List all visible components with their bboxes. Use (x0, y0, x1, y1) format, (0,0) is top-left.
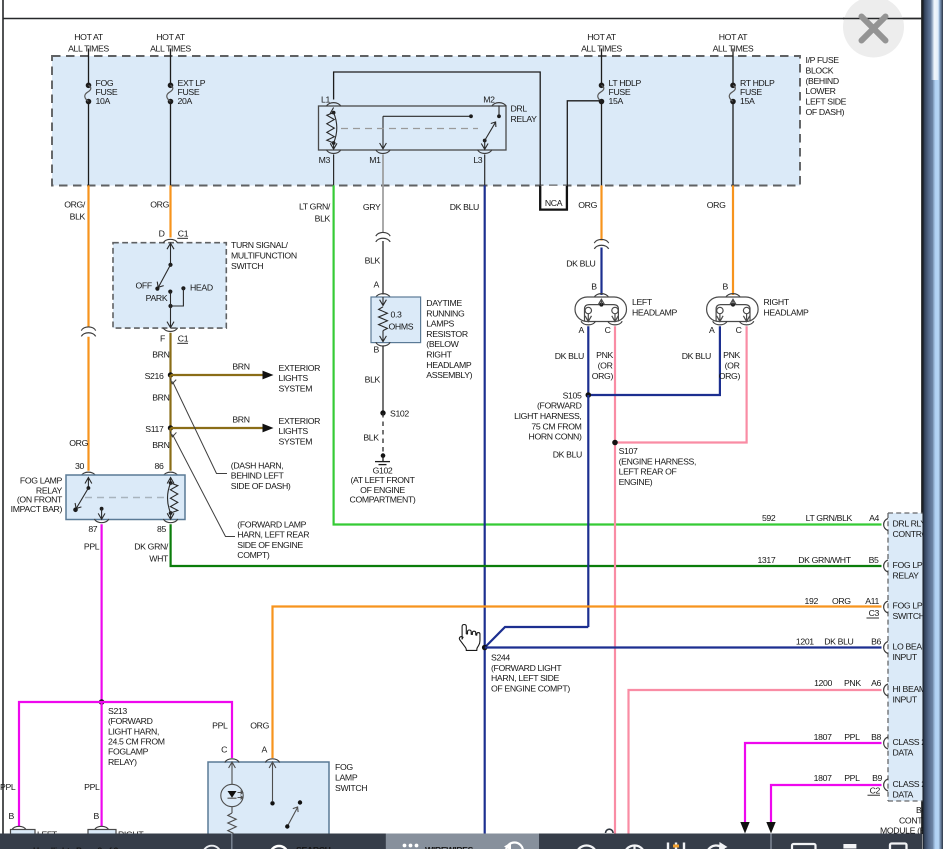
svg-text:DK GRN/: DK GRN/ (134, 542, 169, 552)
svg-text:NCA: NCA (545, 198, 563, 208)
close button (843, 0, 922, 58)
wire: EXT LP FUSE output (170, 102, 172, 186)
pin 87 connector arc (94, 519, 108, 523)
svg-text:BLOCK: BLOCK (806, 65, 834, 75)
pin A connector arc (left headlamp) (581, 321, 595, 325)
svg-text:DK BLU: DK BLU (824, 637, 853, 647)
svg-text:ORG: ORG (578, 200, 597, 210)
pin F connector arc (163, 328, 177, 332)
svg-text:A: A (709, 325, 715, 335)
svg-text:CLASS 2: CLASS 2 (893, 779, 927, 789)
node: HOT AT ALL TIMES (fog fuse) (68, 32, 109, 54)
svg-text:B: B (723, 282, 729, 292)
node: HOT AT ALL TIMES (rt hdlp fuse) (713, 32, 754, 54)
svg-text:ORG): ORG) (592, 371, 614, 381)
right headlamp label (764, 297, 810, 318)
pin A connector arc (376, 294, 390, 298)
note (DASH HARN, BEHIND LEFT SIDE OF DASH) (231, 460, 291, 491)
wire: DK GRN/WHT from fog relay 85 to BCM (FOG LP RELAY) (171, 524, 882, 566)
svg-text:86: 86 (155, 461, 164, 471)
wire: BRN branch to exterior lights system (lower) (171, 427, 263, 429)
fog relay switch contact (pin 30 to 87) (73, 478, 105, 520)
svg-text:PPL: PPL (0, 782, 16, 792)
svg-text:A: A (262, 745, 268, 755)
pin B connector arc (376, 342, 390, 346)
pin A connector arc (265, 759, 279, 763)
svg-text:1317: 1317 (757, 555, 775, 565)
svg-text:HARN, LEFT SIDE: HARN, LEFT SIDE (491, 673, 560, 683)
svg-text:DRL: DRL (511, 104, 528, 114)
inline connector on GRY/BLK wire (376, 232, 390, 241)
svg-text:HEADLAMP: HEADLAMP (764, 308, 810, 318)
wire: DK BLU into left headlamp B (600, 248, 602, 296)
svg-text:BRN: BRN (152, 440, 169, 450)
wire: PPL from BCM B9 (CLASS 2 DATA) down to arrow (771, 785, 882, 823)
wire: BLK from resistor B to S102 (382, 346, 384, 414)
svg-text:HEADLAMP: HEADLAMP (426, 360, 472, 370)
svg-text:24.5 CM FROM: 24.5 CM FROM (108, 737, 165, 747)
label DK GRN/WHT (134, 542, 169, 564)
svg-text:DAYTIME: DAYTIME (426, 298, 462, 308)
small glyph above toolbar (606, 829, 614, 833)
svg-text:BRN: BRN (232, 362, 249, 372)
svg-text:BRN: BRN (232, 415, 249, 425)
NCA box (540, 186, 567, 210)
wire: PPL from fog relay 87 to S213 (100, 524, 102, 702)
connector C1 label (top) (177, 229, 188, 239)
svg-text:(FORWARD: (FORWARD (108, 716, 153, 726)
wire: ORG from LT HDLP fuse to inline connector (600, 185, 602, 240)
wire: ORG to turn signal switch pin D (169, 185, 171, 237)
svg-text:HARN, LEFT REAR: HARN, LEFT REAR (237, 530, 309, 540)
splice S107 (612, 440, 618, 446)
BCM row: DRL RLY CONTROL (762, 513, 933, 539)
DRL relay box (319, 106, 507, 150)
wire: feed into FOG FUSE (88, 49, 90, 86)
svg-text:LIGHT HARNESS,: LIGHT HARNESS, (514, 411, 581, 421)
wire: M3 lead below relay (333, 155, 335, 186)
wire: PNK right headlamp C to S107 (615, 326, 747, 442)
svg-text:PARK: PARK (146, 293, 168, 303)
svg-text:D: D (159, 229, 165, 239)
wire: tap from LT HDLP fuse to NCA (567, 101, 601, 187)
DRL relay linkage dashed line (341, 128, 478, 130)
ground G102 label (350, 466, 416, 505)
svg-text:ORG: ORG (250, 721, 269, 731)
pin 30 connector arc (81, 472, 95, 476)
arrow: PPL class 2 data continues (left) (740, 822, 749, 834)
svg-text:SYSTEM: SYSTEM (279, 436, 313, 446)
svg-text:DK BLU: DK BLU (553, 449, 582, 459)
svg-text:HORN CONN): HORN CONN) (529, 432, 582, 442)
svg-text:DK BLU: DK BLU (555, 351, 584, 361)
svg-text:INPUT: INPUT (893, 652, 918, 662)
wire: BRN from pin F to S216 (169, 333, 171, 375)
S244 label (491, 653, 570, 694)
svg-text:DK BLU: DK BLU (682, 351, 711, 361)
svg-text:PPL: PPL (212, 721, 228, 731)
svg-text:PPL: PPL (844, 773, 860, 783)
svg-text:ORG): ORG) (719, 371, 741, 381)
left fog lamp box (clipped by toolbar) (11, 830, 58, 842)
svg-text:HEAD: HEAD (190, 282, 213, 292)
svg-text:Headlights Page 2 of 2: Headlights Page 2 of 2 (33, 846, 119, 849)
svg-text:SIDE OF DASH): SIDE OF DASH) (231, 481, 291, 491)
fuse EXT LP FUSE 20A (167, 83, 174, 105)
svg-text:B: B (374, 344, 380, 354)
scrollbar (923, 0, 943, 849)
pin 85 connector arc (163, 519, 177, 523)
wire: RT HDLP FUSE output (732, 102, 734, 186)
svg-text:LAMP: LAMP (335, 773, 358, 783)
left headlamp label (632, 297, 678, 318)
splice S216 (168, 372, 173, 377)
label ORG/BLK (64, 200, 86, 222)
svg-text:BRN: BRN (152, 350, 169, 360)
svg-text:DK BLU: DK BLU (450, 202, 479, 212)
svg-text:FOG LP: FOG LP (893, 560, 923, 570)
fog lamp switch label (335, 762, 367, 793)
svg-text:SIDE OF ENGINE: SIDE OF ENGINE (237, 540, 303, 550)
I/P fuse block label (806, 55, 847, 117)
pin M3 connector arc (326, 150, 340, 154)
pin B connector arc (left headlamp) (594, 294, 608, 298)
note (FORWARD LAMP HARN, LEFT REAR SIDE OF ENGINE COMPT) (237, 519, 309, 560)
svg-text:HEADLAMP: HEADLAMP (632, 308, 678, 318)
svg-text:(ENGINE HARNESS,: (ENGINE HARNESS, (619, 456, 696, 466)
fog lamp relay box (66, 475, 185, 520)
svg-text:S107: S107 (619, 446, 638, 456)
wire: feed into RT HDLP FUSE (732, 49, 734, 86)
BCM label (BODY CONTROL MODULE) (880, 805, 940, 835)
wire: DK BLU from S244 to BCM (LO BEAM INPUT) (485, 646, 882, 648)
svg-text:EXTERIOR: EXTERIOR (279, 416, 321, 426)
svg-text:S105: S105 (563, 390, 582, 400)
fuse RT HDLP FUSE 15A (729, 83, 736, 105)
svg-text:COMPT): COMPT) (237, 550, 270, 560)
splice S105 (586, 392, 592, 398)
svg-text:OFF: OFF (135, 281, 151, 291)
svg-text:A11: A11 (865, 596, 879, 606)
fog relay coil (86-85) (167, 478, 178, 520)
svg-text:L1: L1 (321, 94, 330, 104)
svg-text:M2: M2 (483, 94, 495, 104)
svg-text:15A: 15A (609, 96, 624, 106)
svg-text:LIGHTS: LIGHTS (279, 373, 309, 383)
svg-text:OF DASH): OF DASH) (806, 107, 845, 117)
svg-text:LEFT REAR OF: LEFT REAR OF (619, 467, 677, 477)
svg-text:I/P FUSE: I/P FUSE (806, 55, 840, 65)
svg-text:A4: A4 (869, 513, 879, 523)
svg-text:C2: C2 (870, 785, 881, 795)
page frame left border (2, 0, 4, 834)
svg-text:85: 85 (157, 524, 166, 534)
svg-text:ORG: ORG (832, 596, 851, 606)
fog lamp relay label (11, 475, 63, 514)
svg-text:(OR: (OR (598, 361, 613, 371)
wire: ORG/BLK from fuse block to inline connector (87, 185, 89, 327)
svg-text:DK BLU: DK BLU (566, 259, 595, 269)
svg-text:SYSTEM: SYSTEM (279, 383, 313, 393)
svg-text:F: F (160, 334, 165, 344)
fog lamp switch box (208, 762, 329, 840)
svg-text:592: 592 (762, 513, 776, 523)
svg-text:PNK: PNK (844, 678, 861, 688)
wire: PPL from BCM B8 (CLASS 2 DATA) down to arrow (745, 743, 882, 823)
svg-text:C1: C1 (178, 334, 189, 344)
wire: BRN branch to exterior lights system (upper) (171, 374, 263, 376)
wire: ORG into right headlamp B (732, 185, 734, 295)
svg-text:LOWER: LOWER (806, 86, 836, 96)
pin B connector arc (right headlamp) (726, 294, 740, 298)
fuse LT HDLP FUSE 15A (598, 83, 605, 105)
fuse FOG FUSE 10A (85, 83, 92, 105)
svg-text:DRL RLY: DRL RLY (893, 519, 927, 529)
wire: L3 lead below relay (484, 155, 486, 186)
DRL relay coil (L1-M3) (327, 108, 337, 150)
pointer line from S117 to FORWARD LAMP HARN note (170, 431, 235, 536)
page frame top border (3, 18, 922, 20)
svg-text:LEFT: LEFT (632, 297, 653, 307)
svg-text:PPL: PPL (84, 542, 100, 552)
svg-text:BLK: BLK (365, 375, 381, 385)
svg-text:S102: S102 (390, 409, 409, 419)
pin B connector arc (right fog lamp) (94, 826, 108, 830)
BCM row: FOG LP RELAY (757, 555, 922, 580)
svg-text:WHT: WHT (149, 554, 169, 564)
svg-text:B9: B9 (872, 773, 882, 783)
svg-text:(BELOW: (BELOW (426, 339, 459, 349)
svg-text:OF ENGINE: OF ENGINE (360, 485, 405, 495)
daytime running lamps resistor box (371, 297, 421, 343)
svg-text:SWITCH: SWITCH (231, 261, 263, 271)
BCM row: HI BEAM INPUT (814, 678, 926, 704)
svg-text:BLK: BLK (315, 214, 331, 224)
svg-text:MULTIFUNCTION: MULTIFUNCTION (231, 251, 297, 261)
wire: FOG FUSE output (BLK inside block) (88, 102, 90, 186)
svg-text:1200: 1200 (814, 678, 832, 688)
S105 label (514, 390, 582, 441)
inline connector on left wire (81, 327, 95, 336)
pin M1 connector arc (376, 150, 390, 154)
svg-text:DK GRN/WHT: DK GRN/WHT (798, 555, 852, 565)
svg-text:FOGLAMP: FOGLAMP (108, 747, 149, 757)
svg-text:87: 87 (88, 524, 97, 534)
DRL relay contact arm common (M1) (380, 114, 473, 148)
label LT GRN/BLK (299, 202, 331, 224)
svg-text:BLK: BLK (363, 432, 379, 442)
svg-text:B8: B8 (871, 732, 881, 742)
right fog lamp box (clipped by toolbar) (88, 830, 144, 842)
ground G102 (375, 453, 390, 464)
pin C connector arc (right headlamp) (739, 321, 753, 325)
svg-text:CLASS 2: CLASS 2 (893, 737, 927, 747)
svg-text:B: B (9, 811, 15, 821)
svg-text:LT GRN/: LT GRN/ (299, 202, 331, 212)
svg-text:B: B (94, 811, 100, 821)
svg-text:OHMS: OHMS (389, 322, 414, 332)
node: HOT AT ALL TIMES (lt hdlp fuse) (581, 32, 622, 54)
pin L3 connector arc (478, 150, 492, 154)
svg-text:15A: 15A (740, 96, 755, 106)
svg-text:1201: 1201 (796, 637, 814, 647)
svg-text:OF ENGINE COMPT): OF ENGINE COMPT) (491, 683, 570, 693)
fog switch LED indicator (221, 762, 243, 833)
wire: DK BLU from S105 down to S244 (587, 395, 589, 627)
svg-text:TURN SIGNAL/: TURN SIGNAL/ (231, 240, 289, 250)
node: HOT AT ALL TIMES (ext lp fuse) (150, 32, 191, 54)
arrow to exterior lights system (upper) (263, 371, 274, 380)
fog switch contact (269, 762, 302, 829)
svg-text:S216: S216 (145, 371, 164, 381)
svg-text:C3: C3 (869, 608, 880, 618)
svg-text:HI BEAM: HI BEAM (893, 684, 926, 694)
svg-text:B: B (591, 282, 597, 292)
svg-text:FOG: FOG (335, 762, 353, 772)
svg-text:RELAY): RELAY) (108, 757, 137, 767)
svg-text:ORG: ORG (150, 200, 169, 210)
svg-text:RUNNING: RUNNING (426, 308, 465, 318)
svg-text:B6: B6 (871, 637, 881, 647)
svg-text:30: 30 (75, 461, 84, 471)
pin L1 connector arc (326, 103, 340, 107)
svg-text:DATA: DATA (893, 747, 914, 757)
wire: PPL from S213 down to right fog lamp (100, 702, 102, 827)
svg-text:RIGHT: RIGHT (426, 350, 452, 360)
svg-text:BRN: BRN (152, 393, 169, 403)
svg-text:DATA: DATA (893, 789, 914, 799)
DRL relay label (511, 104, 538, 124)
svg-text:HOT AT: HOT AT (156, 32, 186, 42)
svg-text:BEHIND LEFT: BEHIND LEFT (231, 471, 285, 481)
BCM dashed box (888, 513, 943, 801)
wire: PNK left headlamp C down page (614, 326, 616, 833)
DRL relay switch blade (L3 to M2) (481, 106, 501, 150)
BCM row: CLASS 2 DATA (B8) (814, 732, 927, 757)
svg-text:S117: S117 (145, 424, 164, 434)
splice S102 (380, 410, 385, 415)
svg-text:75 CM FROM: 75 CM FROM (531, 421, 581, 431)
S213 label (108, 706, 165, 767)
svg-text:(ON FRONT: (ON FRONT (17, 495, 63, 505)
turn signal / multifunction switch box (113, 243, 226, 328)
pin A connector arc (right headlamp) (713, 321, 727, 325)
svg-text:A6: A6 (871, 678, 881, 688)
svg-text:RELAY: RELAY (893, 570, 920, 580)
svg-text:C: C (221, 745, 227, 755)
svg-text:1807: 1807 (814, 773, 832, 783)
pin C connector arc (left headlamp) (608, 321, 622, 325)
svg-text:M1: M1 (369, 155, 381, 165)
svg-text:FOG LP: FOG LP (893, 601, 923, 611)
svg-text:PNK: PNK (596, 350, 613, 360)
right headlamp (707, 297, 759, 322)
pin M2 connector arc (492, 103, 506, 107)
svg-text:M3: M3 (319, 155, 331, 165)
svg-text:ORG/: ORG/ (64, 200, 86, 210)
svg-text:(FORWARD LAMP: (FORWARD LAMP (237, 519, 306, 529)
svg-text:HOT AT: HOT AT (74, 32, 104, 42)
svg-text:RESISTOR: RESISTOR (426, 329, 468, 339)
svg-text:PPL: PPL (84, 782, 100, 792)
BCM row: CLASS 2 DATA (B9) (814, 773, 927, 799)
svg-text:IMPACT BAR): IMPACT BAR) (11, 504, 63, 514)
wire: LT HDLP FUSE output down (601, 102, 603, 186)
svg-text:S244: S244 (491, 653, 510, 663)
svg-text:C: C (736, 325, 742, 335)
daytime running lamps resistor label (426, 298, 472, 380)
I/P fuse block (dashed box) (52, 56, 800, 186)
svg-text:0.3: 0.3 (391, 310, 403, 320)
svg-text:RIGHT: RIGHT (764, 297, 790, 307)
svg-text:192: 192 (805, 596, 819, 606)
svg-text:FOG LAMP: FOG LAMP (20, 475, 63, 485)
wire: ORG from BCM (FOG LP SWITCH) to fog switch A (273, 607, 882, 759)
pointer line from S216 to DASH HARN note (170, 378, 227, 473)
svg-text:ASSEMBLY): ASSEMBLY) (426, 370, 472, 380)
resistor element 0.3 OHMS (379, 297, 388, 342)
svg-text:A: A (579, 325, 585, 335)
mouse cursor (hand pointer) (459, 625, 480, 651)
wire: PNK from BCM (HI BEAM INPUT) down (629, 690, 882, 834)
svg-text:(FORWARD LIGHT: (FORWARD LIGHT (491, 663, 562, 673)
svg-text:ORG: ORG (707, 200, 726, 210)
wire: DRL relay L1 feed (up and over) (334, 72, 541, 186)
svg-text:A: A (374, 280, 380, 290)
wire: ORG to fog lamp relay pin 30 (87, 337, 89, 471)
pin 86 connector arc (163, 472, 177, 476)
svg-text:SWITCH: SWITCH (893, 611, 925, 621)
wire: BLK from connector to DRL resistor pin A (382, 241, 384, 295)
svg-text:PNK: PNK (723, 350, 740, 360)
wire: DK BLU left headlamp A to S105 (587, 326, 589, 395)
svg-text:ENGINE): ENGINE) (619, 477, 653, 487)
inline connector (ORG to DK BLU) (594, 239, 608, 248)
svg-text:HOT AT: HOT AT (719, 32, 749, 42)
wire: DK BLU from L3 down whole page (484, 185, 486, 833)
svg-text:EXTERIOR: EXTERIOR (279, 363, 321, 373)
svg-text:LT GRN/BLK: LT GRN/BLK (806, 513, 853, 523)
BCM row: FOG LP SWITCH (805, 596, 925, 621)
bottom toolbar (0, 834, 922, 849)
turn signal switch internals (155, 243, 185, 327)
svg-text:LIGHT HARN,: LIGHT HARN, (108, 726, 159, 736)
wire: BRN from S117 to fog relay pin 86 (169, 428, 171, 471)
svg-text:PPL: PPL (844, 732, 860, 742)
svg-text:C1: C1 (178, 229, 189, 239)
svg-text:LEFT SIDE: LEFT SIDE (806, 97, 847, 107)
svg-text:G102: G102 (373, 466, 393, 476)
splice S213 (99, 699, 105, 705)
svg-text:LAMPS: LAMPS (426, 319, 454, 329)
arrow: PPL class 2 data continues (right) (766, 822, 775, 834)
svg-text:ORG: ORG (69, 438, 88, 448)
svg-text:20A: 20A (178, 96, 193, 106)
svg-text:(FORWARD: (FORWARD (537, 401, 582, 411)
svg-text:RELAY: RELAY (511, 114, 538, 124)
svg-text:(OR: (OR (725, 361, 740, 371)
left headlamp (575, 297, 627, 322)
svg-text:B5: B5 (869, 555, 879, 565)
wire: BRN from S216 to S117 (169, 375, 171, 428)
turn signal switch label (231, 240, 297, 271)
wire: LT GRN/BLK from M3 down to BCM row (DRL RLY CONTROL) (334, 185, 882, 524)
pin C connector arc (225, 759, 239, 763)
wire: feed into EXT LP FUSE (170, 49, 172, 86)
svg-text:1807: 1807 (814, 732, 832, 742)
wire: PPL bus from left fog lamp to fog switch C (19, 702, 232, 827)
splice S244 (482, 645, 488, 651)
